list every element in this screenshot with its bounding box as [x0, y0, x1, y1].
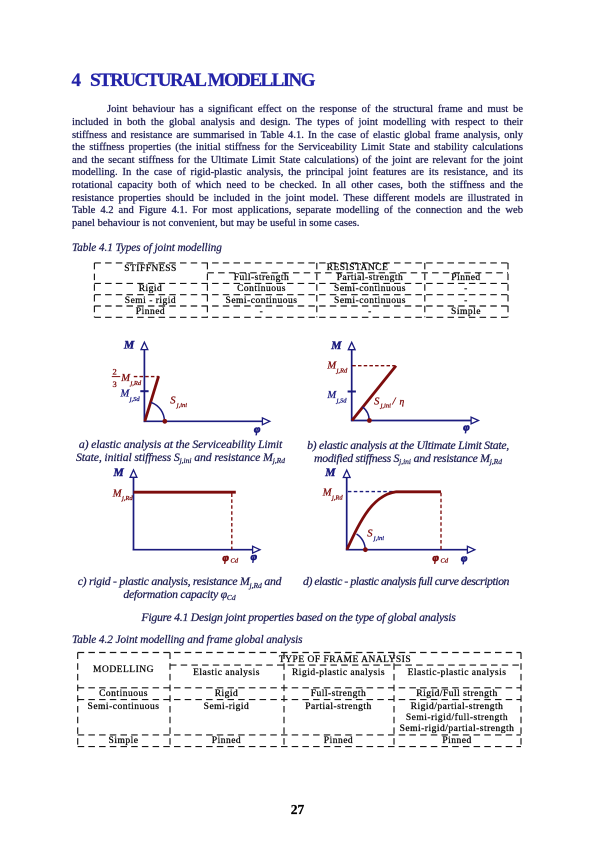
svg-text:φ: φ: [461, 552, 468, 564]
svg-text:j,ini: j,ini: [373, 535, 384, 542]
svg-text:M: M: [330, 340, 342, 352]
svg-text:/: /: [392, 396, 397, 407]
svg-text:j,Sd: j,Sd: [336, 397, 348, 404]
svg-text:φ: φ: [254, 423, 261, 435]
svg-text:j,ini: j,ini: [380, 403, 391, 410]
svg-text:j,Rd: j,Rd: [121, 495, 133, 502]
svg-text:j,Sd: j,Sd: [129, 396, 141, 403]
svg-text:M: M: [324, 467, 336, 479]
svg-text:2: 2: [113, 366, 117, 376]
svg-text:S: S: [367, 529, 373, 540]
svg-text:φ: φ: [223, 552, 230, 564]
svg-text:M: M: [123, 340, 135, 352]
svg-text:S: S: [374, 396, 380, 407]
svg-text:Cd: Cd: [441, 558, 449, 565]
svg-text:3: 3: [113, 379, 117, 389]
svg-text:S: S: [170, 396, 176, 407]
svg-text:φ: φ: [433, 552, 440, 564]
svg-text:η: η: [400, 397, 405, 407]
svg-text:j,Rd: j,Rd: [130, 380, 142, 387]
svg-text:φ: φ: [463, 422, 470, 434]
svg-text:Cd: Cd: [231, 558, 239, 565]
svg-text:M: M: [113, 467, 125, 479]
svg-text:φ: φ: [251, 551, 258, 563]
svg-text:j,ini: j,ini: [176, 402, 187, 409]
svg-text:j,Rd: j,Rd: [331, 494, 343, 501]
svg-text:j,Rd: j,Rd: [336, 367, 348, 374]
